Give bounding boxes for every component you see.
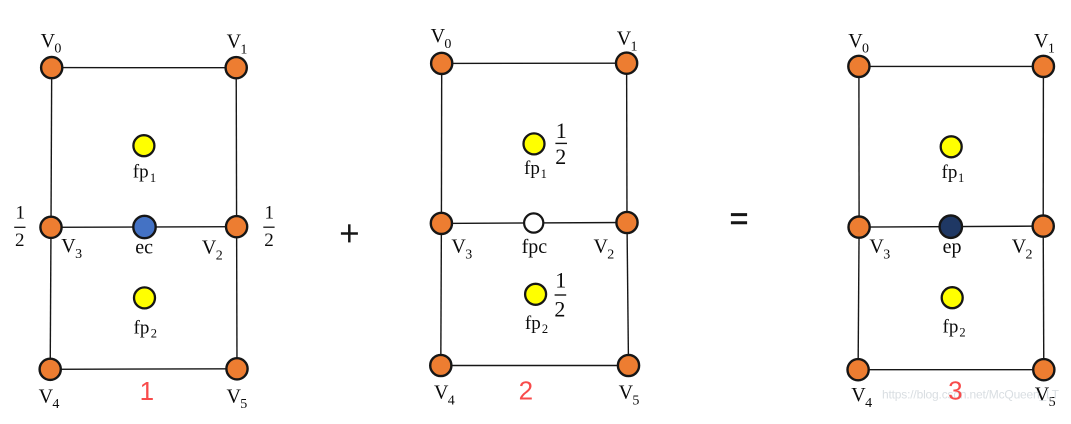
- vertex V2 mesh2: [616, 212, 637, 233]
- vertex V2 mesh1: [226, 216, 247, 237]
- vertex V4 mesh2: [430, 355, 451, 376]
- svg-text:fp: fp: [942, 162, 958, 183]
- svg-text:V: V: [61, 235, 76, 257]
- vertex V3 mesh2: [431, 213, 452, 234]
- svg-text:5: 5: [632, 393, 639, 408]
- vertex V1 mesh1: [226, 57, 247, 78]
- face point fp2 mesh2: [525, 284, 546, 305]
- label fp2 mesh2: [525, 313, 548, 336]
- wire edge V0-V1 (mesh1 top): [52, 67, 237, 69]
- svg-text:V: V: [617, 28, 632, 50]
- svg-text:fp: fp: [134, 318, 150, 339]
- label V2 mesh1: [202, 237, 223, 264]
- svg-text:1: 1: [140, 376, 154, 406]
- wire edge V4-V5 (mesh2 bottom): [441, 365, 629, 367]
- wire edge V0-V3 (mesh1 upper-left): [50, 68, 53, 228]
- svg-text:2: 2: [542, 322, 548, 336]
- svg-text:1: 1: [631, 40, 638, 55]
- label V5 mesh3: [1035, 383, 1056, 410]
- svg-text:3: 3: [75, 247, 82, 262]
- label fp2 mesh3: [943, 317, 966, 340]
- svg-text:V: V: [851, 384, 866, 406]
- label V0 mesh2: [431, 25, 452, 52]
- wire edge V0-V1 (mesh2 top): [442, 62, 627, 64]
- face point fpc mesh2 (white): [524, 213, 543, 232]
- svg-text:1: 1: [1048, 42, 1055, 57]
- svg-text:1: 1: [240, 42, 247, 57]
- label V0 mesh1: [41, 30, 62, 57]
- label V1 mesh3: [1034, 30, 1055, 57]
- svg-text:0: 0: [444, 37, 451, 52]
- fraction 1/2 weight of fp2 mesh2: [554, 267, 566, 321]
- svg-text:1: 1: [541, 167, 547, 181]
- svg-text:2: 2: [555, 144, 566, 169]
- vertex V3 mesh1: [40, 217, 61, 238]
- svg-text:fp: fp: [943, 317, 959, 338]
- face point fp1 mesh2: [524, 133, 545, 154]
- label V4 mesh3: [851, 384, 872, 411]
- vertex V3 mesh3: [849, 217, 870, 238]
- fraction 1/2 weight of fp1 mesh2: [555, 118, 567, 169]
- label fp1 mesh2: [524, 158, 547, 181]
- svg-text:V: V: [619, 382, 634, 404]
- svg-text:2: 2: [216, 248, 223, 263]
- svg-text:2: 2: [607, 247, 614, 262]
- vertex V5 mesh1: [226, 358, 247, 379]
- wire edge V1-V2 (mesh3 upper-right): [1042, 66, 1044, 226]
- label V3 mesh2: [451, 235, 472, 262]
- label V5 mesh2: [619, 382, 640, 409]
- label fp1 mesh1: [133, 162, 156, 185]
- svg-text:3: 3: [465, 247, 472, 262]
- label ec mesh1: [135, 236, 153, 258]
- svg-text:4: 4: [865, 396, 872, 411]
- label fp2 mesh1: [134, 318, 158, 341]
- wire edge V4-V5 (mesh1 bottom): [50, 368, 237, 371]
- svg-text:https://blog.csdn.net/McQueen_: https://blog.csdn.net/McQueen_LT: [882, 388, 1060, 402]
- svg-text:5: 5: [240, 397, 247, 412]
- wire edge V3-V2 through ep (mesh3 middle): [859, 226, 1043, 227]
- svg-text:2: 2: [15, 230, 25, 251]
- vertex V0 mesh2: [431, 53, 452, 74]
- svg-text:ep: ep: [943, 236, 962, 258]
- svg-text:2: 2: [264, 230, 274, 251]
- wire edge V3-V4 (mesh1 lower-left): [49, 227, 52, 369]
- vertex V1 mesh3: [1033, 56, 1054, 77]
- svg-text:V: V: [227, 385, 242, 407]
- svg-text:V: V: [41, 30, 56, 52]
- face point fp1 mesh1: [133, 135, 154, 156]
- svg-text:1: 1: [555, 267, 566, 292]
- label V2 mesh3: [1012, 236, 1033, 263]
- svg-text:4: 4: [52, 397, 59, 412]
- wire edge V0-V3 (mesh3 upper-left): [858, 66, 860, 227]
- wire edge V0-V3 (mesh2 upper-left): [440, 63, 442, 223]
- svg-text:V: V: [848, 30, 863, 52]
- vertex V5 mesh2: [618, 355, 639, 376]
- fraction 1/2 left of mesh1: [14, 202, 25, 251]
- svg-text:2: 2: [959, 326, 965, 340]
- edge point ep mesh3 (dark navy): [940, 216, 962, 238]
- fraction 1/2 right of mesh1: [263, 202, 274, 251]
- svg-text:V: V: [1034, 30, 1049, 52]
- label V4 mesh2: [434, 382, 455, 409]
- mesh 2: [441, 63, 629, 365]
- svg-text:V: V: [451, 235, 466, 257]
- svg-text:2: 2: [519, 375, 533, 405]
- svg-text:2: 2: [554, 296, 565, 321]
- label V5 mesh1: [227, 385, 248, 412]
- svg-text:fp: fp: [133, 162, 149, 183]
- mesh 3: [858, 66, 1044, 369]
- edge point ec mesh1: [133, 216, 155, 238]
- label V4 mesh1: [39, 385, 60, 412]
- svg-text:0: 0: [862, 42, 869, 57]
- vertex V1 mesh2: [616, 53, 637, 74]
- wire edge V3-V4 (mesh2 lower-left): [440, 223, 443, 365]
- svg-text:1: 1: [958, 171, 964, 185]
- svg-text:1: 1: [15, 202, 25, 223]
- svg-text:V: V: [594, 235, 609, 257]
- wire edge V2-V5 (mesh2 lower-right): [627, 223, 629, 366]
- vertex V2 mesh3: [1033, 216, 1054, 237]
- svg-text:V: V: [1012, 236, 1027, 258]
- mesh 1: [50, 68, 237, 370]
- svg-text:1: 1: [150, 171, 156, 185]
- label V3 mesh1: [61, 235, 82, 262]
- svg-text:1: 1: [556, 118, 567, 143]
- vertex V0 mesh1: [41, 57, 62, 78]
- wire edge V2-V5 (mesh1 lower-right): [236, 227, 238, 369]
- face point fp2 mesh1: [134, 287, 155, 308]
- svg-text:V: V: [227, 31, 242, 53]
- label fp1 mesh3: [942, 162, 965, 185]
- vertex V4 mesh3: [848, 359, 869, 380]
- svg-text:fp: fp: [524, 158, 540, 179]
- svg-text:0: 0: [54, 42, 61, 57]
- wire edge V3-V2 through fpc (mesh2 middle): [441, 222, 627, 225]
- wire edge V2-V5 (mesh3 lower-right): [1042, 226, 1045, 370]
- plus operator: [341, 224, 358, 242]
- svg-text:3: 3: [883, 248, 890, 263]
- svg-text:3: 3: [948, 376, 962, 406]
- svg-text:fp: fp: [525, 313, 541, 334]
- svg-text:V: V: [869, 236, 884, 258]
- svg-text:V: V: [434, 382, 449, 404]
- vertex V0 mesh3: [848, 56, 869, 77]
- svg-text:2: 2: [1026, 248, 1033, 263]
- vertex V4 mesh1: [40, 359, 61, 380]
- wire edge V1-V2 (mesh2 upper-right): [626, 63, 628, 222]
- label V0 mesh3: [848, 30, 869, 57]
- label V3 mesh3: [869, 236, 890, 263]
- face point fp1 mesh3: [941, 136, 962, 157]
- wire edge V3-V4 (mesh3 lower-left): [858, 227, 859, 370]
- wire edge V1-V2 (mesh1 upper-right): [235, 68, 237, 227]
- label fpc mesh2: [522, 236, 548, 258]
- svg-text:V: V: [431, 25, 446, 47]
- wire edge V4-V5 (mesh3 bottom): [858, 369, 1044, 371]
- svg-text:4: 4: [448, 393, 455, 408]
- svg-text:V: V: [39, 385, 54, 407]
- label V1 mesh2: [617, 28, 638, 55]
- svg-text:2: 2: [151, 327, 157, 341]
- label V2 mesh2: [594, 235, 615, 262]
- svg-text:ec: ec: [135, 236, 153, 258]
- svg-text:1: 1: [265, 202, 275, 223]
- label ep mesh3: [943, 236, 962, 258]
- svg-text:fpc: fpc: [522, 236, 548, 258]
- label V1 mesh1: [227, 31, 248, 58]
- wire edge V3-V2 through ec (mesh1 middle): [51, 226, 237, 229]
- face point fp2 mesh3: [942, 287, 963, 308]
- wire edge V0-V1 (mesh3 top): [859, 65, 1044, 67]
- equals operator: [731, 215, 747, 223]
- vertex V5 mesh3: [1033, 359, 1054, 380]
- svg-text:V: V: [202, 237, 217, 259]
